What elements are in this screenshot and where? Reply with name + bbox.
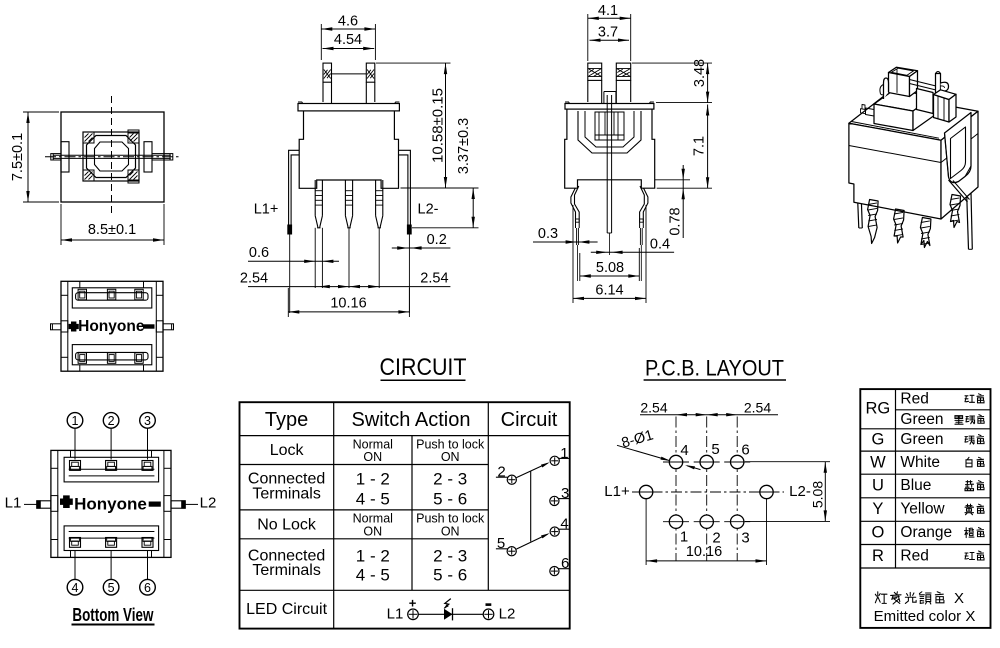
svg-text:Terminals: Terminals <box>252 485 320 502</box>
svg-text:10.58±0.15: 10.58±0.15 <box>430 88 447 163</box>
svg-text:0.6: 0.6 <box>249 245 269 261</box>
svg-text:3: 3 <box>741 530 749 547</box>
svg-text:ON: ON <box>363 450 382 464</box>
svg-text:Terminals: Terminals <box>252 562 320 579</box>
svg-text:5: 5 <box>108 581 115 595</box>
svg-text:0.2: 0.2 <box>427 232 447 248</box>
svg-text:2.54: 2.54 <box>420 270 448 286</box>
svg-text:Green: Green <box>900 411 943 428</box>
svg-text:2: 2 <box>108 414 115 428</box>
svg-text:5: 5 <box>711 441 719 458</box>
svg-text:ON: ON <box>441 524 460 538</box>
svg-text:L2-: L2- <box>418 202 439 218</box>
svg-text:0.78: 0.78 <box>668 207 684 235</box>
svg-text:7.5±0.1: 7.5±0.1 <box>10 133 26 181</box>
svg-text:4: 4 <box>72 581 79 595</box>
svg-text:3.37±0.3: 3.37±0.3 <box>456 118 472 174</box>
svg-text:X: X <box>954 590 964 607</box>
svg-text:L2: L2 <box>200 495 217 512</box>
svg-text:L2-: L2- <box>789 483 811 500</box>
svg-text:5.08: 5.08 <box>810 481 826 508</box>
svg-text:3: 3 <box>144 414 151 428</box>
svg-text:8.5±0.1: 8.5±0.1 <box>88 222 136 238</box>
svg-text:Yellow: Yellow <box>900 501 945 518</box>
svg-text:Circuit: Circuit <box>501 409 558 431</box>
svg-text:2 - 3: 2 - 3 <box>433 546 467 565</box>
svg-text:L1: L1 <box>387 606 404 623</box>
svg-text:0.3: 0.3 <box>538 226 558 242</box>
svg-text:Bottom View: Bottom View <box>72 604 153 625</box>
svg-text:Push to lock: Push to lock <box>416 437 485 451</box>
svg-text:6: 6 <box>144 581 151 595</box>
svg-text:ON: ON <box>441 450 460 464</box>
svg-text:ON: ON <box>363 524 382 538</box>
svg-text:Y: Y <box>872 500 883 518</box>
svg-text:CIRCUIT: CIRCUIT <box>380 354 467 381</box>
svg-text:6.14: 6.14 <box>595 283 623 299</box>
svg-text:Emitted color X: Emitted color X <box>874 608 976 625</box>
svg-text:O: O <box>871 524 884 542</box>
svg-text:2.54: 2.54 <box>744 400 771 416</box>
svg-text:LED Circuit: LED Circuit <box>246 601 327 618</box>
svg-text:5 - 6: 5 - 6 <box>433 566 467 585</box>
svg-text:Red: Red <box>900 548 928 565</box>
svg-text:L1+: L1+ <box>254 202 279 218</box>
svg-text:6: 6 <box>741 442 749 459</box>
svg-text:10.16: 10.16 <box>330 296 366 312</box>
svg-text:1: 1 <box>72 414 79 428</box>
svg-text:4: 4 <box>560 516 568 533</box>
svg-text:5 - 6: 5 - 6 <box>433 490 467 509</box>
svg-text:Honyone: Honyone <box>74 494 147 513</box>
svg-text:P.C.B. LAYOUT: P.C.B. LAYOUT <box>645 355 784 380</box>
svg-text:Green: Green <box>900 431 943 448</box>
svg-text:3.7: 3.7 <box>598 25 618 41</box>
svg-text:1: 1 <box>560 445 568 462</box>
svg-text:Red: Red <box>900 390 928 407</box>
svg-text:4: 4 <box>680 442 688 459</box>
svg-text:1 - 2: 1 - 2 <box>356 546 390 565</box>
svg-text:Normal: Normal <box>353 437 393 451</box>
svg-text:4.54: 4.54 <box>334 32 362 48</box>
svg-text:Lock: Lock <box>270 442 305 459</box>
svg-text:RG: RG <box>866 400 891 418</box>
svg-text:4.6: 4.6 <box>338 14 358 30</box>
svg-text:L1+: L1+ <box>604 483 630 500</box>
svg-text:0.4: 0.4 <box>650 237 670 253</box>
svg-text:Orange: Orange <box>900 524 952 541</box>
svg-text:L2: L2 <box>499 606 516 623</box>
svg-text:Blue: Blue <box>900 477 931 494</box>
svg-text:2.54: 2.54 <box>240 270 268 286</box>
svg-text:2.54: 2.54 <box>640 400 667 416</box>
svg-text:6: 6 <box>561 555 569 572</box>
svg-text:Honyone: Honyone <box>78 318 145 335</box>
svg-text:+: + <box>409 595 417 610</box>
svg-text:White: White <box>900 454 940 471</box>
svg-text:Switch Action: Switch Action <box>352 409 471 431</box>
svg-text:1 - 2: 1 - 2 <box>356 470 390 489</box>
svg-text:L1: L1 <box>5 495 22 512</box>
svg-text:10.16: 10.16 <box>686 544 722 560</box>
svg-text:No Lock: No Lock <box>257 516 317 533</box>
svg-text:4 - 5: 4 - 5 <box>356 490 390 509</box>
svg-text:4 - 5: 4 - 5 <box>356 566 390 585</box>
svg-text:4.1: 4.1 <box>598 3 618 19</box>
svg-text:5.08: 5.08 <box>596 260 624 276</box>
svg-text:5: 5 <box>497 535 505 552</box>
svg-text:7.1: 7.1 <box>692 136 708 156</box>
svg-text:Type: Type <box>265 409 308 431</box>
svg-text:G: G <box>871 431 884 449</box>
svg-text:3.48: 3.48 <box>692 59 708 87</box>
svg-text:U: U <box>872 477 884 495</box>
svg-text:3: 3 <box>561 485 569 502</box>
svg-text:W: W <box>870 453 886 471</box>
svg-text:2 - 3: 2 - 3 <box>433 470 467 489</box>
svg-text:R: R <box>872 547 884 565</box>
